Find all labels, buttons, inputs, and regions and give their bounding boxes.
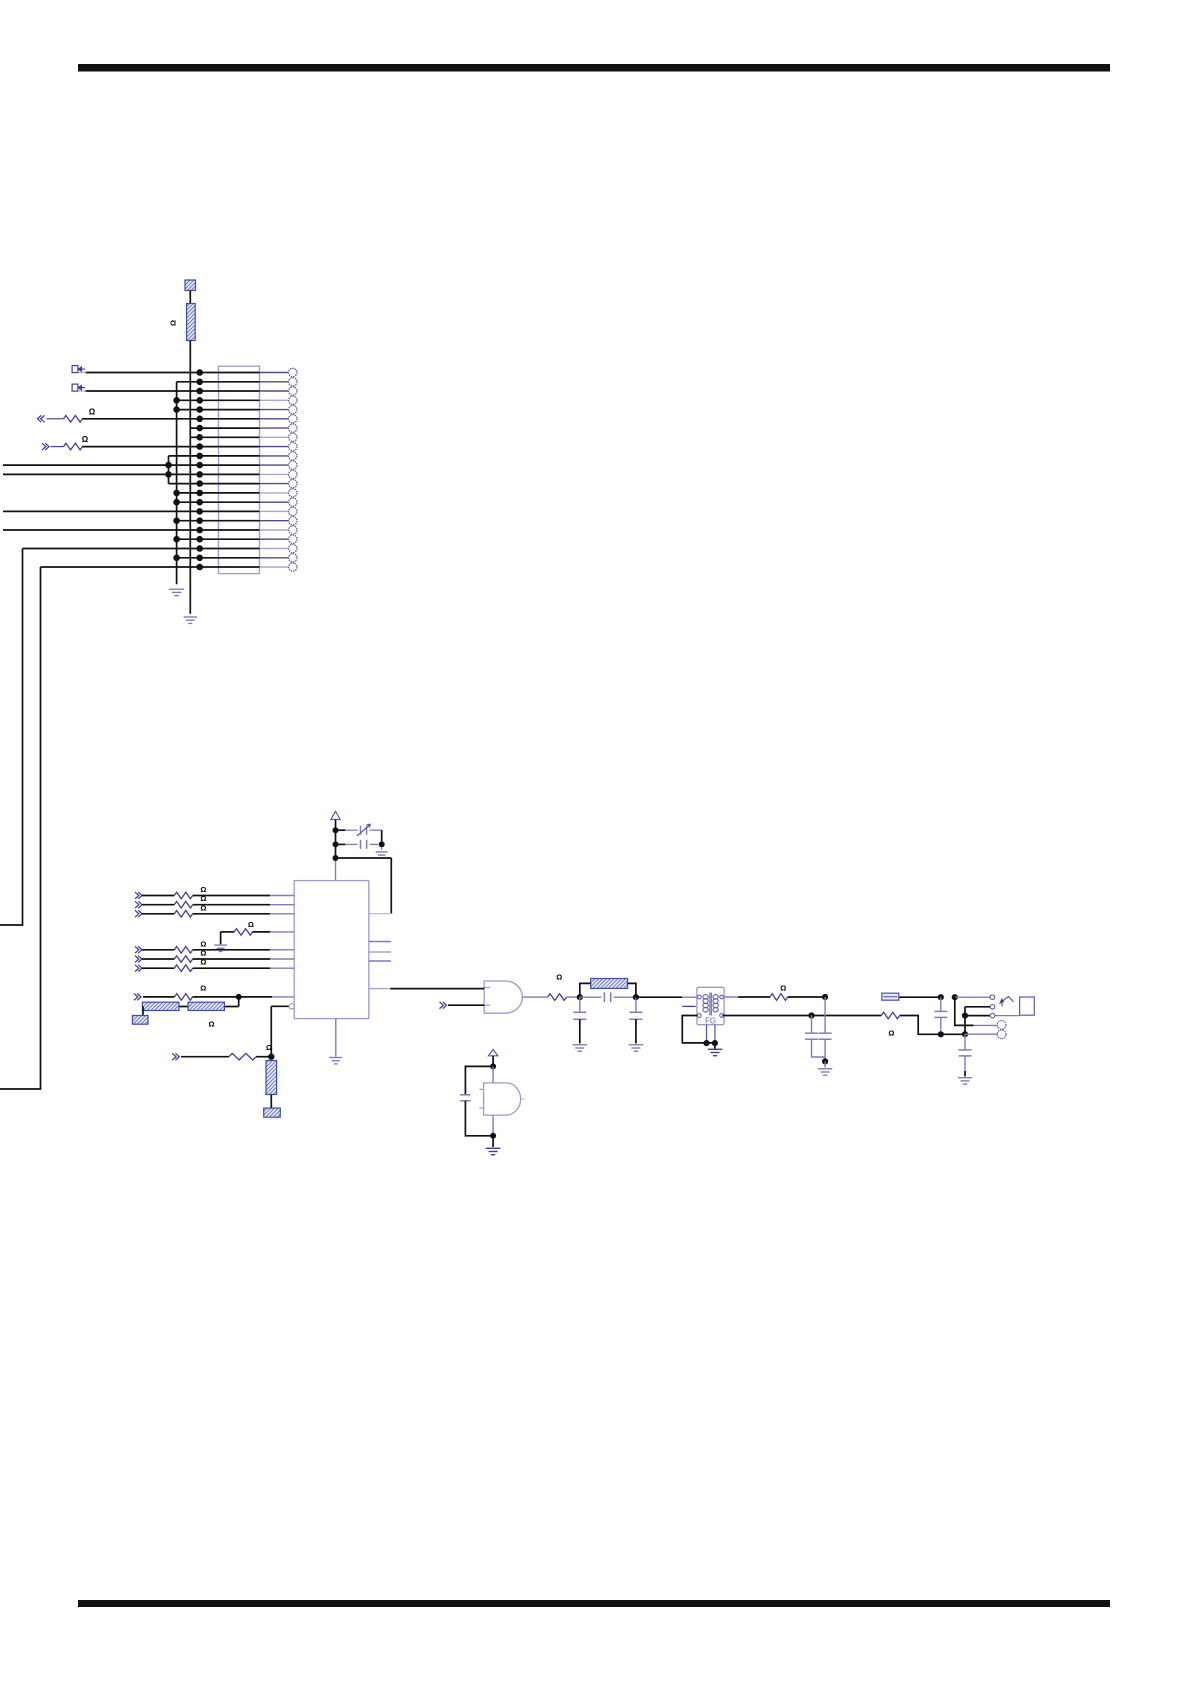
op-amp U1 body (IC) bbox=[294, 881, 369, 1019]
wire bbox=[714, 1043, 716, 1049]
label R14 value bbox=[266, 1043, 272, 1052]
ground GND7 bbox=[629, 1045, 643, 1051]
capacitor C2 bbox=[336, 840, 379, 849]
wire bbox=[270, 1006, 272, 1056]
wire through resistors bbox=[143, 1006, 239, 1008]
svg-text:Ω: Ω bbox=[200, 903, 206, 912]
label R16 value bbox=[556, 973, 562, 982]
terminal pad E2 (hatched square) bbox=[132, 1016, 148, 1025]
junction dot J5 bbox=[938, 1031, 944, 1037]
resistor R2 bbox=[64, 416, 83, 423]
wire VCC down bbox=[335, 820, 337, 859]
svg-text:Ω: Ω bbox=[248, 920, 254, 929]
trimmer capacitor C1 bbox=[336, 824, 382, 836]
IC right stub pins bbox=[369, 942, 391, 962]
jack J2 switch lever bbox=[1000, 997, 1014, 1007]
and-gate U2A bbox=[484, 981, 522, 1013]
resistor R18 bbox=[770, 994, 788, 1001]
wire bbox=[492, 1056, 494, 1067]
ground GND2 bbox=[184, 617, 197, 623]
resistor R10 to gnd bbox=[221, 929, 295, 945]
terminal pad E1 (hatched square) bbox=[185, 280, 196, 291]
wire to tip circle bbox=[965, 1007, 990, 1016]
ground GND8 bbox=[486, 1148, 500, 1154]
label R2 value bbox=[89, 407, 96, 416]
junction dot bbox=[236, 994, 242, 1000]
wire bbox=[788, 996, 826, 998]
label R10 value bbox=[248, 920, 254, 929]
power rail VCC triangle bbox=[331, 811, 340, 819]
wire T1 fg loop bbox=[682, 1016, 715, 1043]
svg-text:Ω: Ω bbox=[169, 320, 178, 326]
junction dot J6 bbox=[822, 1058, 828, 1064]
label R1 value bbox=[169, 320, 178, 326]
capacitor C8 bbox=[819, 997, 832, 1061]
wire vertical bus B bbox=[176, 382, 178, 585]
junction dots on VCC bbox=[333, 827, 339, 861]
off-page arrow U2A input B bbox=[440, 1002, 447, 1009]
svg-text:Ω: Ω bbox=[200, 894, 206, 903]
wire bbox=[142, 1007, 144, 1016]
transformer T1 label FG bbox=[705, 1017, 716, 1026]
wire T1 bottom pins bbox=[707, 1025, 715, 1043]
resistor R13 (hatched) bbox=[188, 1002, 224, 1010]
wire VCC to IC pin right bbox=[336, 858, 392, 914]
wire row22 off-page bbox=[0, 567, 41, 1089]
junction dot J8 bbox=[962, 1031, 968, 1037]
wire bbox=[189, 291, 191, 304]
junction dot J9 bbox=[952, 994, 958, 1000]
junction dot J4 bbox=[808, 1012, 814, 1018]
jack J2 contact circles bbox=[990, 995, 995, 1018]
ground GND9 bbox=[708, 1049, 722, 1055]
off-page tag TP2 bbox=[72, 384, 86, 391]
junction dot J1 bbox=[577, 994, 583, 1000]
ground GND11 bbox=[958, 1078, 972, 1084]
ground GND5 bbox=[329, 1058, 342, 1064]
wire R17 right bbox=[628, 983, 636, 997]
resistor R12 (hatched) bbox=[142, 1002, 179, 1010]
wire IC bottom bbox=[335, 1019, 337, 1057]
off-page arrow out (row 9) bbox=[42, 443, 49, 450]
wire U2B vcc pin bbox=[492, 1066, 494, 1083]
label R12/R13 value bbox=[208, 1020, 214, 1029]
connector row wires bbox=[3, 373, 260, 568]
wire U2A output bbox=[522, 996, 547, 998]
connector J1 pin stubs bbox=[260, 373, 289, 568]
capacitor C3 to gnd bbox=[573, 997, 586, 1043]
wire R17 left bbox=[580, 983, 591, 997]
wire top rail to jack bbox=[955, 996, 990, 998]
wire J10 down bbox=[964, 1016, 966, 1035]
junction dot J2 bbox=[633, 994, 639, 1000]
capacitor C9 bbox=[934, 997, 947, 1034]
wire U2A input B bbox=[448, 1004, 484, 1006]
wire bbox=[270, 1095, 272, 1109]
jack J2 sleeve box bbox=[995, 997, 1034, 1016]
wire bbox=[965, 1015, 990, 1017]
label R19 value bbox=[888, 1029, 894, 1038]
svg-text:Ω: Ω bbox=[780, 983, 786, 992]
wire U2B gnd pin bbox=[492, 1115, 494, 1136]
ground GND1 bbox=[169, 589, 184, 595]
transformer T1 body bbox=[697, 987, 724, 1024]
svg-text:Ω: Ω bbox=[208, 1020, 214, 1029]
transformer T1 windings bbox=[703, 993, 718, 1016]
label R11 value bbox=[200, 984, 206, 993]
IC output stub bbox=[369, 988, 391, 990]
resistor R16 bbox=[548, 994, 567, 1001]
T1 middle stub bbox=[682, 1005, 695, 1007]
wire vertical bus A bbox=[189, 341, 191, 614]
input resistors R4-R9 rows bbox=[135, 892, 294, 972]
wire J2 to transformer bbox=[636, 996, 697, 998]
svg-text:Ω: Ω bbox=[200, 939, 206, 948]
input row R14 bbox=[172, 1053, 271, 1060]
ground GND3 bbox=[376, 847, 388, 858]
wire bbox=[51, 446, 64, 448]
junction dot bbox=[379, 841, 385, 847]
wire bbox=[492, 1136, 494, 1147]
wire row20 off-page bbox=[0, 549, 23, 926]
top rule bbox=[78, 64, 1110, 72]
wire bottom rail bbox=[941, 1033, 965, 1035]
svg-text:Ω: Ω bbox=[200, 949, 206, 958]
connector J1 pin circles bbox=[289, 368, 297, 571]
resistor R17 (hatched) bbox=[591, 979, 628, 989]
wire T1 sec top bbox=[722, 996, 770, 998]
wire R19 jog bbox=[900, 1016, 941, 1035]
capacitor C10 bbox=[959, 1034, 972, 1076]
svg-text:Ω: Ω bbox=[89, 407, 96, 416]
wire T1 sec bottom bbox=[722, 1015, 881, 1017]
wire VCC to IC top bbox=[335, 858, 337, 881]
ferrite bead FB1 bbox=[882, 993, 941, 1000]
label R3 value bbox=[82, 435, 89, 444]
off-page tag TP1 bbox=[72, 366, 86, 373]
wire bbox=[824, 1061, 826, 1067]
svg-text:Ω: Ω bbox=[200, 958, 206, 967]
svg-text:FG: FG bbox=[705, 1017, 716, 1026]
off-page arrow in (row 6) bbox=[38, 415, 45, 422]
wire to sleeve circle bbox=[965, 1033, 997, 1035]
capacitor C4 (series) bbox=[580, 992, 636, 1002]
junction dot J10 bbox=[962, 1013, 968, 1019]
wire J9 to ring circle bbox=[955, 997, 997, 1025]
wire bbox=[47, 418, 64, 420]
capacitor C6 bypass bbox=[460, 1066, 493, 1135]
resistor R1 (vertical hatched) bbox=[187, 304, 196, 341]
junction dot J7 bbox=[938, 994, 944, 1000]
capacitor C5 to gnd bbox=[629, 997, 642, 1043]
bottom rule bbox=[78, 1600, 1110, 1607]
junction dots bbox=[703, 1040, 718, 1046]
capacitor C7 bbox=[805, 1016, 825, 1058]
junction dot bbox=[490, 1133, 496, 1139]
svg-text:Ω: Ω bbox=[82, 435, 89, 444]
resistor R15 (vertical hatched) bbox=[266, 1061, 277, 1095]
junction dot bbox=[268, 1054, 274, 1060]
power triangle VCC2 bbox=[488, 1049, 497, 1055]
svg-text:Ω: Ω bbox=[266, 1043, 272, 1052]
input row R11 bbox=[134, 994, 294, 1001]
svg-text:Ω: Ω bbox=[200, 984, 206, 993]
wire vertical bus C bbox=[168, 456, 170, 484]
ground GND10 bbox=[818, 1069, 832, 1075]
resistor R3 bbox=[64, 443, 83, 450]
label R18 value bbox=[780, 983, 786, 992]
terminal pad E3 (hatched square) bbox=[264, 1108, 281, 1117]
labels R4-R9 bbox=[200, 885, 206, 967]
junction dots bbox=[165, 369, 203, 570]
wire bbox=[567, 996, 580, 998]
svg-text:Ω: Ω bbox=[888, 1029, 894, 1038]
svg-text:Ω: Ω bbox=[200, 885, 206, 894]
ground GND4 bbox=[214, 945, 227, 951]
jack J2 big circles bbox=[997, 1021, 1006, 1039]
ground GND6 bbox=[573, 1045, 587, 1051]
connector J1 body bbox=[219, 366, 260, 573]
svg-text:Ω: Ω bbox=[556, 973, 562, 982]
wire bbox=[238, 997, 240, 1007]
wire bbox=[381, 830, 383, 844]
junction dot J3 bbox=[822, 994, 828, 1000]
resistor R19 bbox=[881, 1012, 899, 1019]
nand-gate U2B bbox=[479, 1083, 524, 1115]
IC pin 1 bubble bbox=[271, 1004, 294, 1009]
junction dot bbox=[490, 1063, 496, 1069]
transformer T1 pins bbox=[697, 995, 723, 1017]
wire IC output to U2A input A bbox=[390, 988, 484, 990]
